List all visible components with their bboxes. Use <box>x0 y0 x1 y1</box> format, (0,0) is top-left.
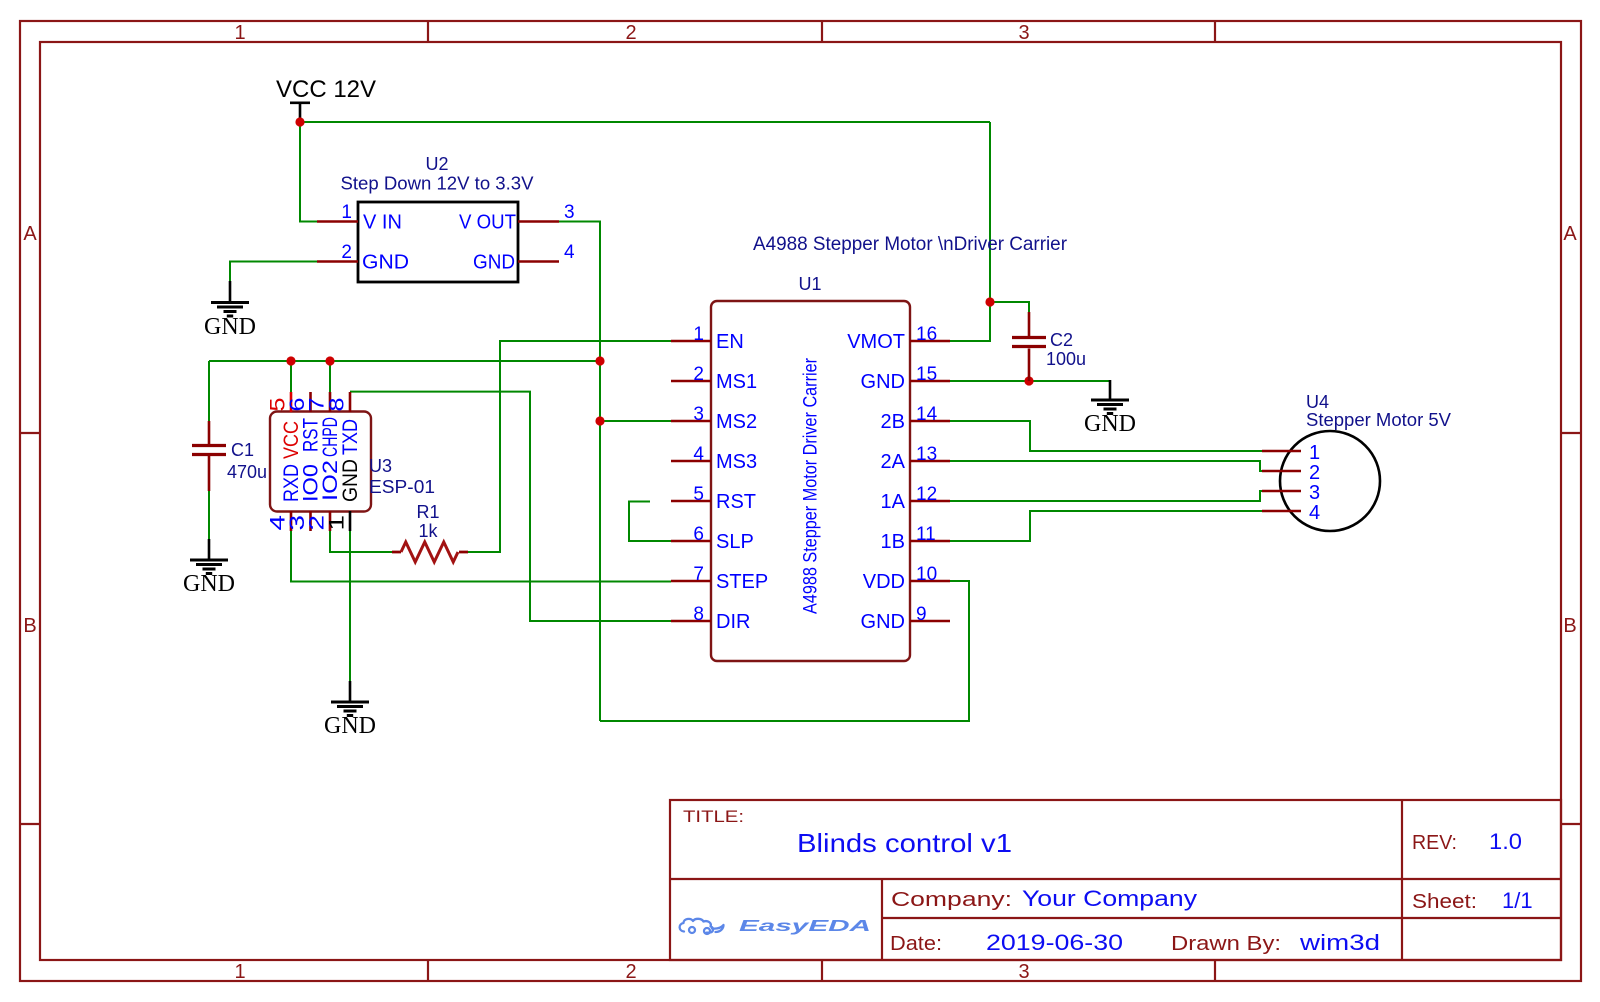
frame row ticks left <box>20 433 40 824</box>
svg-text:MS3: MS3 <box>716 451 757 473</box>
power flag VCC 12V <box>276 76 376 122</box>
svg-text:9: 9 <box>916 604 927 625</box>
svg-text:Company:: Company: <box>891 889 1012 911</box>
wire U3 IO2 pin2 to R1 left <box>330 531 392 552</box>
wire R1 right to U1 EN pin1 <box>468 341 671 552</box>
wire VCC12V top rail <box>300 121 990 123</box>
svg-text:2: 2 <box>1309 462 1320 484</box>
U3 pin 1 GND (bottom) <box>326 459 363 531</box>
svg-text:Step Down 12V to 3.3V: Step Down 12V to 3.3V <box>341 174 534 194</box>
svg-text:B: B <box>1563 615 1576 637</box>
capacitor C1 <box>192 421 226 491</box>
svg-text:14: 14 <box>916 404 938 425</box>
svg-text:A4988 Stepper Motor Driver Car: A4988 Stepper Motor Driver Carrier <box>801 357 822 614</box>
junction C2 bottom / GND15 node <box>1024 376 1033 385</box>
U2 pin 1 V IN <box>317 202 402 234</box>
svg-text:C2: C2 <box>1050 330 1073 350</box>
U3 pin 2 IO2 (bottom) <box>306 460 343 531</box>
wire U1 2A pin13 to motor pin2 <box>950 461 1262 471</box>
wire U3 RXD pin4 to U1 STEP pin7 <box>291 531 671 582</box>
svg-text:4: 4 <box>1309 502 1320 524</box>
svg-text:2: 2 <box>625 22 636 44</box>
wire C1 bottom to ground <box>208 490 210 540</box>
svg-text:3: 3 <box>1018 961 1029 983</box>
wire junction to VMOT pin16 <box>950 302 990 341</box>
U1 pin 12 1A <box>881 484 950 513</box>
svg-text:6: 6 <box>693 524 704 545</box>
svg-text:U2: U2 <box>425 154 448 174</box>
svg-text:3: 3 <box>1018 22 1029 44</box>
svg-text:B: B <box>23 615 36 637</box>
svg-text:GND: GND <box>473 252 515 274</box>
junction 3.3V rail at x600 <box>595 356 604 365</box>
U4 pin 4 <box>1262 502 1320 524</box>
wire U3 pin7 CHPD up to rail <box>329 361 331 392</box>
U1 pin 8 DIR <box>671 604 750 633</box>
svg-text:Stepper Motor 5V: Stepper Motor 5V <box>1306 410 1451 430</box>
svg-text:10: 10 <box>916 564 937 585</box>
U3 pin 5 VCC (top) <box>267 392 304 459</box>
svg-text:1: 1 <box>693 324 704 345</box>
svg-text:GND: GND <box>204 314 256 340</box>
wire U1 1A pin12 to motor pin3 <box>950 491 1262 501</box>
ground symbol at C1 <box>183 539 235 597</box>
U1 pin 7 STEP <box>671 564 768 593</box>
wire U1 1B pin11 to motor pin4 <box>950 511 1262 541</box>
svg-text:R1: R1 <box>416 502 439 522</box>
svg-text:1B: 1B <box>881 531 905 553</box>
svg-text:4: 4 <box>564 242 575 263</box>
wire 3.3V horizontal rail to C1 <box>209 360 600 362</box>
svg-text:RST: RST <box>716 491 756 513</box>
svg-text:Sheet:: Sheet: <box>1412 891 1477 913</box>
svg-text:470u: 470u <box>227 462 267 482</box>
junction MS2 branch <box>595 416 604 425</box>
svg-text:7: 7 <box>693 564 704 585</box>
svg-text:A: A <box>23 223 37 245</box>
U2 pin 4 GND <box>473 242 575 274</box>
svg-text:15: 15 <box>916 364 937 385</box>
title block outline <box>670 800 1561 960</box>
U1 pin 10 VDD <box>863 564 950 593</box>
svg-text:3: 3 <box>693 404 704 425</box>
capacitor C2 <box>1012 312 1046 381</box>
U1 pin 2 MS1 <box>671 364 757 393</box>
svg-text:U1: U1 <box>798 274 821 294</box>
svg-text:100u: 100u <box>1046 349 1086 369</box>
wire U3 pin5 VCC up to rail <box>290 361 292 392</box>
svg-text:8: 8 <box>693 604 704 625</box>
U2 pin 2 GND <box>317 242 409 274</box>
svg-text:Date:: Date: <box>890 933 942 955</box>
U2 pin 3 V OUT <box>459 202 575 234</box>
svg-text:MS2: MS2 <box>716 411 757 433</box>
U1 pin 4 MS3 <box>671 444 757 473</box>
ground symbol at U2 pin2 <box>204 281 256 340</box>
svg-text:1: 1 <box>326 515 349 531</box>
svg-text:1/1: 1/1 <box>1502 888 1533 913</box>
svg-text:1: 1 <box>341 202 352 223</box>
U3 pin 4 RXD (bottom) <box>267 464 304 531</box>
svg-text:V OUT: V OUT <box>459 212 516 234</box>
wire U3 TXD pin8 to U1 DIR pin8 <box>350 392 671 621</box>
wire U3 GND pin1 to ground <box>349 531 351 682</box>
svg-text:2019-06-30: 2019-06-30 <box>986 930 1123 955</box>
frame column ticks bottom <box>428 960 1215 981</box>
frame row ticks right <box>1561 433 1581 824</box>
ground symbol at C2/GND15 <box>1084 380 1136 437</box>
U1 pin 11 1B <box>881 524 950 553</box>
wire VCC12V to U2 V IN <box>300 122 318 222</box>
svg-text:VDD: VDD <box>863 571 905 593</box>
svg-text:GND: GND <box>339 459 362 502</box>
svg-text:TXD: TXD <box>339 419 362 455</box>
svg-text:1: 1 <box>234 22 245 44</box>
svg-text:3: 3 <box>1309 482 1320 504</box>
svg-text:2: 2 <box>625 961 636 983</box>
U1 pin 3 MS2 <box>671 404 757 433</box>
svg-text:GND: GND <box>861 371 905 393</box>
svg-text:1A: 1A <box>881 491 906 513</box>
U3 pin 3 IO0 (bottom) <box>286 464 323 531</box>
svg-text:1.0: 1.0 <box>1489 829 1522 854</box>
wire U1 GND pin15 to ground and C2 <box>950 380 1110 382</box>
junction U3 VCC pin5 branch <box>286 356 295 365</box>
svg-text:16: 16 <box>916 324 937 345</box>
U1 pin 13 2A <box>881 444 950 473</box>
wire VCC12V down to VMOT junction <box>989 122 991 302</box>
U4 pin 3 <box>1262 482 1320 504</box>
svg-text:GND: GND <box>1084 411 1136 437</box>
svg-text:MS1: MS1 <box>716 371 757 393</box>
junction VMOT/C2 top node <box>985 297 994 306</box>
svg-text:1: 1 <box>1309 442 1320 464</box>
U1 pin 1 EN <box>671 324 744 353</box>
svg-text:GND: GND <box>362 252 409 274</box>
svg-text:2A: 2A <box>881 451 906 473</box>
ESP-01 module U3 box <box>270 412 371 512</box>
svg-text:STEP: STEP <box>716 571 768 593</box>
junction U3 CHPD pin7 branch <box>325 356 334 365</box>
svg-text:11: 11 <box>916 524 936 545</box>
svg-text:1: 1 <box>234 961 245 983</box>
svg-text:SLP: SLP <box>716 531 754 553</box>
U4 pin 2 <box>1262 462 1320 484</box>
junction VCC flag node <box>295 117 304 126</box>
svg-text:U4: U4 <box>1306 392 1329 412</box>
svg-text:1k: 1k <box>418 521 438 541</box>
svg-text:5: 5 <box>693 484 704 505</box>
U1 pin 15 GND <box>861 364 950 393</box>
U3 pin 6 RST (top) <box>286 392 323 452</box>
svg-text:2: 2 <box>693 364 704 385</box>
svg-text:2B: 2B <box>881 411 905 433</box>
wire C1 top lead <box>208 361 210 421</box>
stepper motor U4 circle <box>1280 431 1380 531</box>
svg-text:8: 8 <box>326 398 349 412</box>
U1 pin 14 2B <box>881 404 950 433</box>
svg-text:TITLE:: TITLE: <box>683 807 744 826</box>
U1 pin 16 VMOT <box>847 324 950 353</box>
wire junction to C2 top <box>990 302 1029 313</box>
resistor R1 <box>392 542 468 562</box>
U1 pin 5 RST <box>671 484 756 513</box>
svg-text:12: 12 <box>916 484 937 505</box>
svg-text:U3: U3 <box>369 456 392 476</box>
wire U1 2B pin14 to motor pin1 <box>950 421 1262 451</box>
svg-text:GND: GND <box>861 611 905 633</box>
svg-text:Blinds control v1: Blinds control v1 <box>797 828 1012 858</box>
svg-text:2: 2 <box>341 242 352 263</box>
svg-text:3: 3 <box>564 202 575 223</box>
wire 3.3V to U1 MS2 pin3 <box>600 420 671 422</box>
U3 pin 7 CHPD (top) <box>306 392 343 457</box>
wire RST-SLP jumper <box>629 502 671 542</box>
svg-text:EN: EN <box>716 331 744 353</box>
svg-text:4: 4 <box>693 444 704 465</box>
svg-text:ESP-01: ESP-01 <box>369 477 435 497</box>
U4 pin 1 <box>1262 442 1320 464</box>
svg-text:wim3d: wim3d <box>1299 930 1380 955</box>
svg-text:VCC 12V: VCC 12V <box>276 76 376 103</box>
svg-text:REV:: REV: <box>1412 832 1457 854</box>
U1 pin 9 GND <box>861 604 950 633</box>
svg-text:C1: C1 <box>231 440 254 460</box>
voltage regulator U2 box <box>358 202 518 282</box>
svg-text:Drawn By:: Drawn By: <box>1171 933 1281 955</box>
wire 3.3V to U1 VDD pin10 <box>600 581 969 721</box>
svg-text:DIR: DIR <box>716 611 750 633</box>
ground symbol at U3 pin1 <box>324 681 376 739</box>
svg-text:13: 13 <box>916 444 937 465</box>
svg-text:A: A <box>1563 223 1577 245</box>
frame column ticks top <box>428 21 1215 42</box>
svg-text:V IN: V IN <box>363 212 402 234</box>
svg-text:VMOT: VMOT <box>847 331 905 353</box>
svg-text:Your Company: Your Company <box>1022 886 1197 911</box>
EasyEDA logo <box>680 918 871 935</box>
svg-text:A4988 Stepper Motor \nDriver C: A4988 Stepper Motor \nDriver Carrier <box>753 234 1068 255</box>
U3 pin 8 TXD (top) <box>326 392 363 455</box>
stepper driver U1 box <box>711 301 910 661</box>
svg-text:GND: GND <box>183 571 235 597</box>
wire U2 V OUT down 3.3V rail <box>558 222 600 722</box>
svg-text:EasyEDA: EasyEDA <box>739 918 871 935</box>
wire U2 GND pin2 to ground <box>230 262 318 283</box>
svg-text:GND: GND <box>324 713 376 739</box>
U1 pin 6 SLP <box>671 524 754 553</box>
